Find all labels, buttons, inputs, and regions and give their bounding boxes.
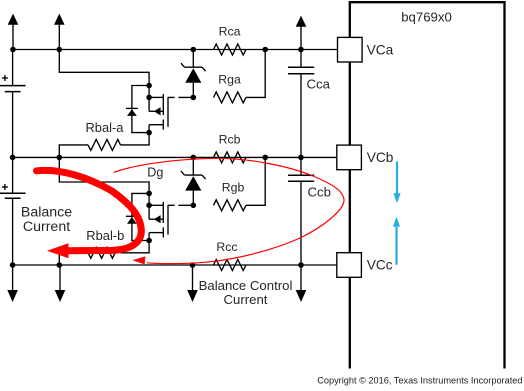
svg-text:Rcc: Rcc <box>216 240 237 254</box>
wire Rgb right to Rcb node <box>246 157 265 205</box>
continuation arrow down 3 <box>187 265 198 302</box>
continuation arrow up 3 <box>296 16 307 50</box>
svg-text:Dg: Dg <box>147 166 163 180</box>
svg-text:Rca: Rca <box>219 25 241 39</box>
svg-text:Rcb: Rcb <box>219 133 241 147</box>
transistor Q2 (balancing NFET, cell B) <box>149 202 168 241</box>
junction dots rail C <box>10 262 304 268</box>
capacitor Ccb <box>288 157 314 265</box>
resistor Rga <box>214 92 247 103</box>
continuation arrow up 1 <box>8 14 19 50</box>
rail C (bottom cell tap net) <box>13 264 337 266</box>
resistor Rbal-a <box>88 139 121 150</box>
svg-text:Balance Control: Balance Control <box>199 278 293 293</box>
svg-text:VCa: VCa <box>367 42 394 57</box>
junction dots FET B column <box>146 191 196 244</box>
rail B (middle cell tap net) <box>13 156 337 158</box>
svg-text:bq769x0: bq769x0 <box>401 10 452 25</box>
rail A (top cell tap net) <box>13 49 338 51</box>
capacitor Cca <box>288 50 314 158</box>
svg-text:Current: Current <box>23 219 70 235</box>
svg-text:Rbal-a: Rbal-a <box>86 120 125 135</box>
svg-text:Current: Current <box>224 292 268 307</box>
continuation arrow down 4 <box>296 265 307 302</box>
blue arrow VCc sense up <box>393 217 400 265</box>
resistor Rgb <box>214 200 247 211</box>
resistor Rbal-b <box>88 247 121 258</box>
junction dots rail A <box>10 47 304 53</box>
svg-text:Rbal-b: Rbal-b <box>86 228 124 243</box>
zener diode DZ1 (cell A) <box>181 50 206 98</box>
battery cell BT1 <box>0 50 26 158</box>
wire Q1 gate to zener node <box>168 96 193 98</box>
pin VCb box <box>337 145 362 170</box>
svg-text:VCc: VCc <box>367 258 393 273</box>
chip U1 bq769x0 outline <box>350 2 505 368</box>
svg-text:Copyright © 2016, Texas Instru: Copyright © 2016, Texas Instruments Inco… <box>317 375 522 385</box>
resistor Rcc <box>214 260 247 271</box>
battery cell BT2 <box>0 157 26 265</box>
wire battery A tap to FET Q1 drain <box>59 50 149 86</box>
wire Q1 drain column <box>148 86 150 112</box>
wire Q1 source to Rbal-a <box>121 133 150 145</box>
wire Rbal-b to rail C <box>59 253 88 265</box>
wire Q2 drain column <box>148 193 150 219</box>
resistor Rcb <box>214 152 247 163</box>
junction dots FET A column <box>146 83 196 136</box>
body diode D1 (across Q1) <box>126 86 149 133</box>
balance control current loop (thin red) <box>114 158 345 264</box>
continuation arrow down 1 <box>7 265 18 302</box>
wire Q2 source to Rbal-b <box>121 241 150 253</box>
zener diode Dg (cell B) <box>181 157 206 205</box>
resistor Rca <box>214 44 247 55</box>
body diode D2 (across Q2) <box>126 193 149 240</box>
junction dots rail B <box>10 155 304 161</box>
wire Rga right to Rca node <box>246 50 265 98</box>
transistor Q1 (balancing NFET, cell A) <box>149 94 168 133</box>
continuation arrow down 2 <box>55 265 66 302</box>
svg-text:Rga: Rga <box>218 73 241 87</box>
pin VCa box <box>338 37 363 62</box>
svg-text:Cca: Cca <box>307 76 331 91</box>
balance current arrow (thick red) <box>37 170 142 258</box>
blue arrow VCb sense down <box>393 162 400 204</box>
svg-text:Rgb: Rgb <box>222 180 245 194</box>
wire Q2 gate to zener node <box>168 204 193 206</box>
wire battery B tap to FET Q2 drain <box>59 157 149 193</box>
wire Rbal-a to rail B <box>59 145 88 158</box>
pin VCc box <box>337 253 362 278</box>
continuation arrow up 2 <box>54 14 65 50</box>
svg-text:VCb: VCb <box>367 150 394 165</box>
svg-text:Ccb: Ccb <box>308 185 331 200</box>
